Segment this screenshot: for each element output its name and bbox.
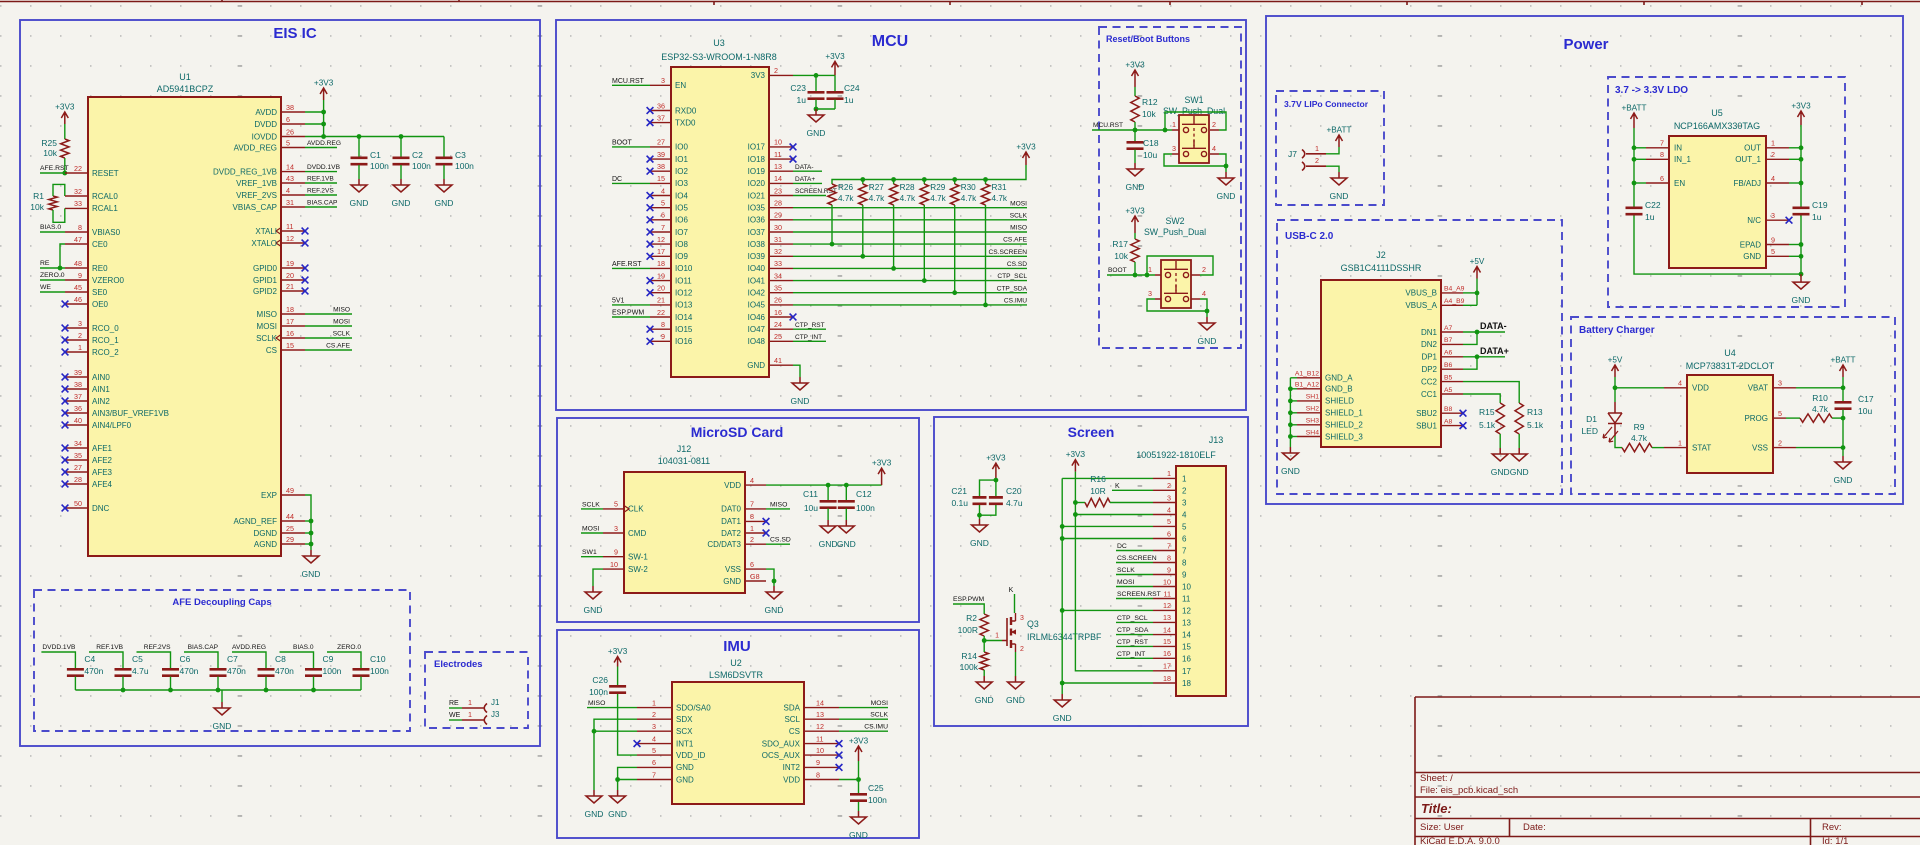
svg-text:+3V3: +3V3: [1016, 143, 1036, 152]
power +3V3 (C21/C20): [992, 463, 999, 480]
svg-text:GND: GND: [723, 577, 741, 586]
svg-text:8: 8: [1167, 553, 1171, 562]
svg-text:+3V3: +3V3: [608, 647, 628, 656]
resistor R25: [61, 139, 69, 158]
svg-text:CS: CS: [789, 727, 800, 736]
svg-text:Rev:: Rev:: [1822, 822, 1842, 833]
pin U1.17 MOSI: [281, 325, 305, 327]
ground J7: [1331, 172, 1347, 185]
pin J2.A1_B12 GND_A: [1297, 377, 1321, 379]
svg-text:8: 8: [1660, 150, 1664, 159]
ground Q3: [1008, 676, 1024, 689]
svg-text:1: 1: [1148, 265, 1152, 274]
svg-text:16: 16: [1163, 649, 1171, 658]
svg-text:R14: R14: [961, 651, 977, 661]
pin J12.1 DAT2: [745, 532, 766, 534]
svg-text:IO42: IO42: [748, 289, 766, 298]
svg-text:GPID1: GPID1: [253, 276, 278, 285]
pin J13.4: [1153, 514, 1176, 516]
wire row5: [1062, 525, 1153, 527]
svg-text:17: 17: [1163, 662, 1171, 671]
svg-text:1u: 1u: [797, 95, 807, 105]
pin U4.3 VBAT: [1773, 387, 1796, 389]
svg-text:IO21: IO21: [748, 191, 766, 200]
junction: [977, 513, 982, 518]
svg-text:10k: 10k: [30, 202, 44, 212]
junction: [357, 134, 362, 139]
svg-text:22: 22: [657, 308, 665, 317]
svg-text:B4_A9: B4_A9: [1444, 286, 1465, 293]
svg-text:2: 2: [652, 710, 656, 719]
svg-text:28: 28: [74, 475, 82, 484]
svg-text:SE0: SE0: [92, 288, 108, 297]
svg-text:SHIELD_2: SHIELD_2: [1325, 421, 1363, 430]
ground U1: [303, 550, 319, 563]
svg-text:GND: GND: [765, 605, 784, 615]
ground AFE caps: [221, 690, 223, 702]
resistor R28 4.7k: [893, 180, 895, 185]
junction: [321, 134, 326, 139]
svg-text:PROG: PROG: [1744, 414, 1768, 423]
pin J2.A7 DN1: [1441, 331, 1463, 333]
pin U3.30 IO37: [769, 231, 793, 233]
svg-text:GND: GND: [819, 539, 838, 549]
power +3V3 (U2): [855, 746, 862, 761]
wire GND7 left: [618, 779, 637, 781]
wire: [617, 780, 619, 791]
svg-text:RCO_0: RCO_0: [92, 324, 119, 333]
junction: [814, 107, 819, 112]
svg-text:36: 36: [657, 101, 665, 110]
svg-text:5.1k: 5.1k: [1479, 420, 1496, 430]
svg-text:4: 4: [661, 186, 665, 195]
svg-text:16: 16: [286, 329, 294, 338]
svg-text:+BATT: +BATT: [1830, 356, 1855, 365]
svg-text:17: 17: [657, 247, 665, 256]
svg-text:4.7u: 4.7u: [132, 666, 149, 676]
svg-text:GND: GND: [975, 695, 994, 705]
svg-text:3: 3: [1172, 144, 1176, 153]
svg-text:2: 2: [1212, 120, 1216, 129]
wire: [1116, 574, 1153, 576]
svg-text:IO38: IO38: [748, 240, 766, 249]
junction: [1205, 309, 1210, 314]
svg-text:4.7k: 4.7k: [1631, 433, 1648, 443]
pin U1.28 AFE4: [65, 483, 88, 485]
junction: [1073, 512, 1078, 517]
svg-text:AVDD: AVDD: [255, 108, 277, 117]
svg-text:100n: 100n: [589, 687, 608, 697]
wire: [1225, 166, 1227, 172]
svg-text:INT1: INT1: [676, 739, 694, 748]
svg-text:SCX: SCX: [676, 727, 693, 736]
resistor R15 5.1k: [1496, 403, 1504, 434]
junction: [1288, 434, 1293, 439]
junction: [994, 478, 999, 483]
wire caps bottom: [979, 505, 981, 515]
pin U2.1 SDO/SA0: [637, 707, 672, 709]
pin J2.A8 SBU1: [1441, 425, 1463, 427]
svg-text:14: 14: [774, 174, 782, 183]
junction: [216, 688, 221, 693]
svg-text:1u: 1u: [1645, 212, 1655, 222]
svg-text:Power: Power: [1563, 36, 1608, 53]
pin U3.37 TXD0: [650, 122, 671, 124]
svg-text:10: 10: [610, 560, 618, 569]
svg-text:9: 9: [1771, 235, 1775, 244]
junction: [309, 542, 314, 547]
svg-text:RCAL0: RCAL0: [92, 192, 118, 201]
wire: [980, 480, 996, 496]
pin U1.44 AGND_REF: [281, 520, 305, 522]
svg-text:MOSI: MOSI: [257, 322, 277, 331]
svg-text:IO4: IO4: [675, 191, 688, 200]
section box Power: [1266, 16, 1903, 504]
svg-text:8: 8: [750, 512, 754, 521]
svg-text:AVDD_REG: AVDD_REG: [234, 143, 277, 152]
capacitor C18: [1134, 130, 1136, 141]
pin U1.3 RCO_0: [65, 327, 88, 329]
resistor R30 4.7k: [954, 180, 956, 185]
svg-text:BIAS.0: BIAS.0: [40, 224, 61, 231]
svg-text:3: 3: [1148, 289, 1152, 298]
svg-text:100n: 100n: [856, 503, 875, 513]
pin J2.SH2 SHIELD_1: [1297, 412, 1321, 414]
svg-text:1: 1: [78, 343, 82, 352]
svg-text:GND_B: GND_B: [1325, 385, 1353, 394]
svg-text:NCP166AMX330TAG: NCP166AMX330TAG: [1674, 121, 1760, 131]
junction: [309, 531, 314, 536]
svg-text:11: 11: [286, 222, 293, 231]
svg-text:LED: LED: [1581, 426, 1598, 436]
svg-text:9: 9: [1167, 565, 1171, 574]
svg-text:4: 4: [1212, 144, 1216, 153]
junction: [592, 729, 597, 734]
svg-text:C17: C17: [1858, 394, 1874, 404]
svg-text:104031-0811: 104031-0811: [658, 456, 710, 466]
svg-text:IO19: IO19: [748, 167, 766, 176]
svg-text:CS.IMU: CS.IMU: [864, 724, 888, 731]
svg-text:CC1: CC1: [1421, 390, 1438, 399]
wire SW2 top loop: [1147, 256, 1213, 275]
svg-text:AIN0: AIN0: [92, 373, 110, 382]
svg-text:27: 27: [74, 463, 82, 472]
power +3V3 (C26): [614, 657, 621, 667]
svg-text:B6: B6: [1444, 362, 1453, 369]
svg-text:SW1: SW1: [582, 549, 597, 556]
svg-text:3: 3: [661, 76, 665, 85]
power +3V3 (SW1): [1132, 70, 1139, 87]
title block: [1415, 697, 1920, 845]
svg-text:IN: IN: [1674, 144, 1682, 153]
wire: [979, 515, 981, 519]
wire DP: [1463, 356, 1505, 358]
svg-text:49: 49: [286, 486, 294, 495]
svg-text:IO39: IO39: [748, 252, 766, 261]
svg-text:50: 50: [74, 499, 82, 508]
wire CC2 to R13: [1463, 382, 1519, 403]
svg-text:+3V3: +3V3: [1791, 102, 1811, 111]
junction: [1133, 128, 1138, 133]
wire SW2 bottom loop: [1147, 299, 1207, 311]
capacitor C12: [845, 485, 847, 500]
svg-text:1: 1: [468, 698, 472, 707]
pin U3.27 IO0: [650, 146, 671, 148]
wire gate: [984, 640, 1002, 642]
svg-text:GND: GND: [676, 775, 694, 784]
resistor R17 10k: [1131, 239, 1139, 262]
svg-text:N/C: N/C: [1747, 216, 1761, 225]
pin U3.13 IO19: [769, 170, 793, 172]
svg-text:31: 31: [286, 198, 294, 207]
wire: [1800, 216, 1802, 275]
junction: [844, 483, 849, 488]
capacitor C21: [973, 497, 987, 503]
svg-text:10u: 10u: [1858, 406, 1872, 416]
pin U1.50 DNC: [65, 507, 88, 509]
pin U2.13 SCL: [804, 718, 839, 720]
svg-text:Screen: Screen: [1068, 424, 1115, 440]
pin U3.26 IO45: [769, 304, 793, 306]
junction: [983, 303, 988, 308]
junction: [1799, 272, 1804, 277]
svg-text:1u: 1u: [844, 95, 854, 105]
wire: [617, 667, 619, 686]
svg-text:U2: U2: [730, 658, 742, 668]
svg-text:4: 4: [1182, 511, 1187, 520]
pin U1.38 AVDD: [281, 111, 305, 113]
junction: [1799, 254, 1804, 259]
svg-text:IO48: IO48: [748, 337, 766, 346]
svg-text:5: 5: [652, 746, 656, 755]
pin U2.2 SDX: [637, 718, 672, 720]
ground C18: [1127, 163, 1143, 176]
svg-text:3: 3: [1020, 615, 1024, 622]
svg-text:21: 21: [657, 296, 665, 305]
svg-text:SH4: SH4: [1306, 429, 1319, 436]
svg-text:3: 3: [1167, 493, 1171, 502]
svg-text:7: 7: [750, 500, 754, 509]
pin U4.4 VDD: [1664, 387, 1687, 389]
pin U1.37 AIN2: [65, 400, 88, 402]
svg-text:C24: C24: [844, 83, 860, 93]
svg-text:VDD_ID: VDD_ID: [676, 751, 706, 760]
ground C23/C24: [808, 109, 824, 122]
svg-text:48: 48: [74, 259, 82, 268]
pin U3.15 IO3: [650, 182, 671, 184]
svg-text:10: 10: [774, 138, 782, 147]
svg-text:BIAS.CAP: BIAS.CAP: [188, 644, 219, 651]
pin U3.10 IO17: [769, 146, 793, 148]
svg-text:11: 11: [1182, 595, 1191, 604]
wire: [64, 158, 66, 173]
svg-text:AGND_REF: AGND_REF: [233, 517, 277, 526]
svg-text:8: 8: [816, 770, 820, 779]
wire BOOT to SW2: [1107, 274, 1155, 276]
svg-text:27: 27: [657, 138, 665, 147]
svg-text:IO16: IO16: [675, 337, 693, 346]
svg-text:GND: GND: [584, 605, 603, 615]
junction: [62, 171, 67, 176]
svg-text:C25: C25: [868, 783, 884, 793]
wire: [40, 279, 65, 281]
section box 3.7 - 3.3V LDO: [1608, 77, 1845, 307]
power +5V (J2): [1474, 267, 1481, 279]
svg-text:Sheet: /: Sheet: /: [1420, 773, 1453, 784]
junction: [891, 266, 896, 271]
wire CC1 to R15: [1463, 394, 1500, 403]
svg-text:B7: B7: [1444, 337, 1453, 344]
wire: [40, 231, 65, 233]
svg-text:DC: DC: [612, 176, 622, 183]
svg-text:U3: U3: [713, 38, 725, 48]
svg-text:DP2: DP2: [1421, 365, 1437, 374]
svg-text:VSS: VSS: [725, 565, 741, 574]
pin U2.5 VDD_ID: [637, 754, 672, 756]
wire SW1 top loop: [1165, 112, 1226, 130]
wire: [40, 172, 65, 174]
junction: [1288, 399, 1293, 404]
junction: [1145, 273, 1150, 278]
pin U5.1 OUT: [1766, 147, 1789, 149]
svg-text:1: 1: [468, 710, 472, 719]
wire: [953, 604, 984, 614]
wire +3V3 rail: [1800, 125, 1802, 207]
svg-text:AVDD.REG: AVDD.REG: [232, 644, 266, 651]
svg-text:43: 43: [286, 174, 294, 183]
svg-text:GND: GND: [747, 361, 765, 370]
pin J13.2: [1153, 489, 1176, 491]
svg-text:1: 1: [652, 698, 656, 707]
pin J13.6: [1153, 538, 1176, 540]
svg-text:Date:: Date:: [1523, 822, 1546, 833]
svg-text:MOSI: MOSI: [1117, 579, 1134, 586]
capacitor C19: [1793, 208, 1810, 214]
wire 3V3 to caps: [793, 74, 835, 76]
pin U1.11 XTALI: [276, 228, 281, 235]
wire: [1116, 562, 1153, 564]
pin U3.34 IO41: [769, 280, 793, 282]
svg-text:R31: R31: [992, 183, 1007, 192]
svg-text:CS.SCREEN: CS.SCREEN: [1117, 555, 1157, 562]
svg-text:4.7k: 4.7k: [930, 194, 946, 203]
pin U1.29 AGND: [281, 543, 305, 545]
junction: [1799, 157, 1804, 162]
svg-text:SH3: SH3: [1306, 418, 1319, 425]
wire: [1134, 262, 1136, 275]
svg-text:AFE3: AFE3: [92, 468, 113, 477]
power +3V3 (pullups): [1023, 152, 1030, 165]
svg-text:35: 35: [74, 451, 82, 460]
wire VDD rail: [766, 484, 882, 486]
wire: [1652, 447, 1664, 449]
svg-text:28: 28: [774, 199, 782, 208]
svg-text:C8: C8: [275, 654, 286, 664]
svg-text:IRLML6344TRPBF: IRLML6344TRPBF: [1027, 632, 1102, 642]
power +5V (U4): [1612, 365, 1619, 377]
pin U1.27 AFE3: [65, 471, 88, 473]
pin U3.20 IO12: [650, 292, 671, 294]
pin J13.17: [1153, 670, 1176, 672]
capacitor C20: [995, 480, 997, 496]
pin J12.10 SW-2: [603, 568, 624, 570]
pin U3.21 IO13: [650, 304, 671, 306]
svg-text:+5V: +5V: [1608, 356, 1623, 365]
capacitor C11: [827, 485, 829, 500]
resistor R13 5.1k: [1515, 403, 1523, 434]
svg-text:CTP_SCL: CTP_SCL: [1117, 615, 1148, 622]
pin U2.14 SDA: [804, 707, 839, 709]
svg-text:RCO_1: RCO_1: [92, 336, 119, 345]
svg-text:10: 10: [1182, 583, 1191, 592]
pin U1.33 RCAL1: [65, 207, 88, 209]
wire caps gnd: [816, 108, 835, 110]
wire: [1206, 311, 1208, 317]
wire: [1116, 550, 1153, 552]
svg-text:AFE1: AFE1: [92, 444, 113, 453]
svg-text:C19: C19: [1812, 200, 1828, 210]
junction: [952, 290, 957, 295]
svg-text:SCL: SCL: [784, 715, 800, 724]
pin U5.6 EN: [1646, 182, 1669, 184]
svg-text:ZERO.0: ZERO.0: [337, 644, 361, 651]
svg-text:12: 12: [1182, 606, 1191, 615]
svg-text:EN: EN: [1674, 179, 1685, 188]
junction: [922, 278, 927, 283]
wire SDX left: [594, 719, 637, 731]
svg-text:7: 7: [661, 223, 665, 232]
pin U1.16 SCLK: [276, 335, 281, 342]
pin U3.16 IO46: [769, 316, 793, 318]
svg-text:5: 5: [1167, 517, 1171, 526]
svg-text:2: 2: [1771, 150, 1775, 159]
svg-text:3: 3: [652, 722, 656, 731]
svg-text:100n: 100n: [370, 161, 389, 171]
svg-text:14: 14: [1182, 631, 1191, 640]
svg-text:1: 1: [1678, 438, 1682, 447]
power +3V3 (J12): [878, 468, 885, 485]
svg-text:12: 12: [1163, 601, 1171, 610]
svg-text:6: 6: [1182, 535, 1187, 544]
svg-text:36: 36: [74, 404, 82, 413]
svg-text:A1_B12: A1_B12: [1295, 371, 1319, 378]
svg-text:15: 15: [657, 174, 665, 183]
svg-text:B5: B5: [1444, 374, 1453, 381]
svg-text:2: 2: [1020, 646, 1024, 653]
pin U2.11 SDO_AUX: [804, 743, 839, 745]
resistor R31 4.7k: [985, 180, 987, 185]
svg-text:6: 6: [750, 560, 754, 569]
svg-text:25: 25: [774, 332, 782, 341]
pin U3.5 IO5: [650, 207, 671, 209]
wire: [305, 147, 337, 149]
junction: [1060, 536, 1065, 541]
svg-text:IO36: IO36: [748, 216, 766, 225]
wire R1 loop top: [53, 184, 65, 196]
pin J13.5: [1153, 525, 1176, 527]
svg-text:C6: C6: [180, 654, 191, 664]
wire: [1842, 448, 1844, 456]
svg-text:GND: GND: [1834, 475, 1853, 485]
pin U3.39 IO1: [650, 158, 671, 160]
pin J13.18: [1153, 682, 1176, 684]
wire EXP down: [305, 495, 311, 550]
svg-text:46: 46: [74, 295, 82, 304]
svg-text:47: 47: [74, 235, 82, 244]
pin J13.12: [1153, 609, 1176, 611]
svg-text:DAT1: DAT1: [721, 517, 741, 526]
svg-text:R1: R1: [33, 191, 44, 201]
